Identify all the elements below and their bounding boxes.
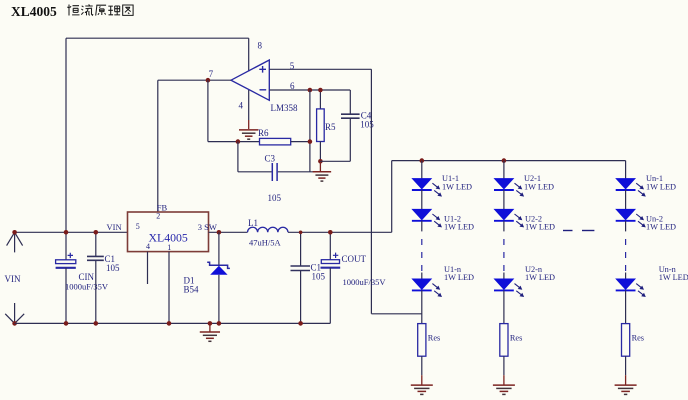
wire Res to ground (U2): [503, 356, 505, 375]
svg-text:1W LED: 1W LED: [646, 223, 676, 232]
svg-text:L1: L1: [248, 218, 258, 228]
node D1 anode bottom: [217, 321, 222, 326]
wire SW pin to L1: [209, 231, 248, 233]
LED U2-1 1W LED: [495, 179, 514, 189]
ground below pin 4: [239, 129, 258, 131]
wire pin7 branch down to R6: [207, 80, 209, 141]
svg-text:1: 1: [167, 243, 171, 252]
node COUT top: [328, 230, 333, 235]
dashed continuation wire U2: [503, 239, 505, 271]
input terminal arrow down: [5, 303, 24, 323]
dashed continuation wire Un: [625, 239, 627, 271]
svg-text:4: 4: [146, 242, 150, 251]
LED Un-1 1W LED: [616, 179, 635, 189]
svg-text:1000uF/35V: 1000uF/35V: [65, 282, 109, 292]
LED U1-1 1W LED: [413, 179, 432, 189]
svg-text:1W LED: 1W LED: [646, 183, 676, 192]
node R6 right junction: [308, 139, 313, 144]
capacitor C4: [349, 90, 351, 114]
LED Un-n 1W LED: [616, 279, 635, 289]
svg-text:105: 105: [312, 272, 326, 282]
node pin1 bottom: [167, 321, 172, 326]
wire C3 left branch down: [237, 142, 239, 172]
node CIN bottom: [64, 321, 69, 326]
resistor Res (Un string): [622, 324, 630, 357]
wire SW to D1 cathode: [218, 232, 220, 264]
wire ground stem below R5: [319, 161, 321, 172]
node R6-left / C3 branch: [236, 139, 241, 144]
wire R6 right lead: [291, 141, 310, 143]
svg-text:LM358: LM358: [271, 103, 299, 113]
resistor Res (U1 string): [418, 324, 426, 357]
wire op-amp pin5 (+) to sense line: [269, 68, 371, 70]
continuation dashes between strings: [563, 230, 573, 232]
resistor R6: [260, 138, 291, 145]
resistor Res (U2 string): [500, 324, 508, 357]
svg-text:Res: Res: [510, 334, 522, 343]
title chinese 恒流原理图 (drawn strokes): [67, 4, 133, 15]
wire vertical pin6 to R6-right to ground row: [309, 90, 311, 172]
ground under U2 string: [493, 384, 515, 386]
inductor L1: [248, 227, 288, 232]
svg-text:Res: Res: [632, 334, 644, 343]
capacitor CIN electrolytic: [65, 232, 67, 259]
ground below R5: [313, 171, 331, 173]
svg-text:1W LED: 1W LED: [525, 223, 555, 232]
node C1 top: [94, 230, 99, 235]
node CIN top: [64, 230, 69, 235]
svg-text:Res: Res: [428, 334, 440, 343]
LED string top rail: [392, 160, 626, 162]
capacitor C1 output: [300, 232, 302, 266]
node R5 bottom / C4 return junction: [318, 159, 323, 164]
wire Un LED n to Res: [625, 290, 627, 323]
node R5 top junction: [318, 88, 323, 93]
wire U1 LED n to Res: [421, 290, 423, 323]
svg-text:8: 8: [258, 41, 263, 51]
node C1 bottom: [94, 321, 99, 326]
wire Un below LED2: [625, 221, 627, 232]
ground under U1 string: [411, 384, 433, 386]
wire op-amp pin6 (-) row: [269, 89, 350, 91]
svg-text:XL4005: XL4005: [11, 4, 57, 19]
wire C3 right to ground: [278, 171, 313, 173]
wire op-amp pin4 down: [248, 90, 250, 120]
wire output up to LED rail: [391, 161, 393, 233]
node input bottom: [12, 321, 17, 326]
node R6/pin6 vertical junction top: [308, 88, 313, 93]
svg-text:105: 105: [106, 263, 120, 273]
wire R5 bottom lead: [319, 142, 321, 162]
LED string U1 top connection: [420, 158, 425, 163]
resistor R5: [319, 90, 321, 109]
ground/return bottom rail: [15, 322, 331, 324]
ground under Un string: [615, 384, 637, 386]
LED U2-n 1W LED: [495, 279, 514, 289]
svg-text:6: 6: [290, 81, 295, 91]
svg-text:5: 5: [136, 222, 140, 231]
svg-text:2: 2: [156, 212, 160, 221]
LED U1-2 1W LED: [413, 209, 432, 219]
wire Res to ground (Un): [625, 356, 627, 375]
wire op-amp pin7 output to FB: [158, 79, 231, 81]
svg-text:5: 5: [290, 61, 295, 71]
wire U2 above LED n: [503, 273, 505, 280]
input VIN top rail: [15, 231, 128, 233]
wire Un above LED n: [625, 273, 627, 280]
svg-text:CIN: CIN: [79, 272, 95, 282]
LED U2-2 1W LED: [495, 209, 514, 219]
svg-text:105: 105: [360, 119, 374, 129]
svg-text:1W LED: 1W LED: [659, 273, 688, 282]
svg-text:47uH/5A: 47uH/5A: [249, 238, 282, 248]
svg-text:B54: B54: [184, 285, 200, 295]
svg-text:1000uF/35V: 1000uF/35V: [343, 277, 387, 287]
op-amp U1 LM358 triangle: [231, 60, 269, 100]
wire U1 below LED2: [421, 221, 423, 232]
node input top: [12, 230, 17, 235]
svg-text:1W LED: 1W LED: [524, 183, 554, 192]
wire pin5 sense line down and right: [370, 69, 372, 313]
IC XL4005 box: [128, 212, 209, 252]
svg-text:4: 4: [239, 101, 244, 111]
svg-text:105: 105: [268, 193, 282, 203]
input terminal arrow up: [7, 232, 23, 252]
svg-text:R6: R6: [258, 128, 269, 138]
svg-text:C3: C3: [265, 154, 276, 164]
node SW junction: [217, 230, 222, 235]
svg-text:1W LED: 1W LED: [442, 183, 472, 192]
wire pin4 stub: [147, 252, 149, 284]
wire pin1 to return rail: [168, 252, 170, 324]
wire U2 below LED2: [503, 221, 505, 232]
node C1out bottom: [298, 321, 303, 326]
svg-text:1W LED: 1W LED: [444, 223, 474, 232]
wire Res to ground (U1): [421, 356, 423, 375]
wire U1 above LED n: [421, 273, 423, 280]
LED string Un top connection: [625, 161, 627, 179]
dashed continuation wire U1: [421, 239, 423, 271]
wire U2 between LED1 and LED2: [503, 190, 505, 209]
wire L1 output row: [288, 231, 392, 233]
node C1out top: [299, 231, 303, 235]
ground tap on return rail: [209, 323, 211, 332]
wire U2 LED n to Res: [503, 290, 505, 323]
node pin7/R6 branch junction: [206, 78, 211, 83]
svg-text:3 SW: 3 SW: [198, 222, 217, 232]
wire Un between LED1 and LED2: [625, 190, 627, 209]
LED Un-2 1W LED: [616, 209, 635, 219]
capacitor C1 input: [95, 232, 97, 257]
wire U1 between LED1 and LED2: [421, 190, 423, 209]
svg-text:1W LED: 1W LED: [525, 273, 555, 282]
capacitor COUT electrolytic: [329, 232, 331, 259]
svg-text:VIN: VIN: [107, 222, 122, 232]
svg-text:COUT: COUT: [342, 254, 367, 264]
svg-text:R5: R5: [325, 122, 336, 132]
LED string U2 top connection: [502, 158, 507, 163]
diode D1 schottky B54: [207, 262, 230, 268]
svg-text:7: 7: [209, 69, 214, 79]
LED U1-n 1W LED: [413, 279, 432, 289]
svg-text:1W LED: 1W LED: [444, 273, 474, 282]
capacitor C3: [271, 163, 273, 181]
wire op-amp pin8 V+ up and across to input rail: [248, 38, 250, 71]
svg-text:VIN: VIN: [5, 274, 21, 284]
